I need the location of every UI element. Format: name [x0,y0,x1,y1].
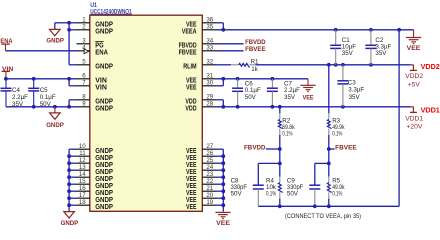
ground GNDP below C5 [50,107,61,120]
label R3 [332,118,345,138]
junction VEE rail [221,77,274,81]
resistor R2 [278,120,282,129]
label +20V [406,124,423,131]
ground GNDP top-left [50,29,61,35]
svg-text:21: 21 [206,185,213,192]
wire VEEA top rail [216,29,414,31]
junction VEEA rail [221,28,401,32]
pin 7 (VIN) [77,80,107,92]
svg-text:FBVDD: FBVDD [245,39,266,46]
svg-text:VIN: VIN [2,66,14,73]
svg-text:33: 33 [206,45,213,52]
svg-text:ENA: ENA [95,47,108,56]
svg-text:VDD1: VDD1 [421,106,440,115]
capacitor C6 [232,79,243,107]
pin 34 (FBVDD) [179,38,216,50]
wire VEE bus pins 27-19 [222,149,224,211]
ground VEE mid [300,79,315,92]
svg-text:VEE: VEE [216,220,231,227]
pin 22 (VEE) [186,178,216,190]
wire FBVDD label stub [266,148,280,150]
svg-text:ENA: ENA [0,38,13,45]
wire FBVEE label stub [329,148,335,150]
port VDD2 [410,65,417,71]
label C9 [287,178,304,198]
wires pins10-18 to bus [69,149,76,205]
pin 18 (GNDP) [77,199,114,211]
wire branch to C8 [258,163,280,185]
wire VDD rail pin28 to port [216,106,411,108]
pin 21 (VEE) [186,185,216,197]
label R1 [251,58,259,73]
svg-text:VDD2: VDD2 [405,73,423,80]
pin 25 (VEE) [186,157,216,169]
junction pins1-2 bus [67,21,71,32]
wire FBVEE node down [328,149,330,163]
svg-text:0.1%: 0.1% [266,191,277,198]
svg-text:29: 29 [206,94,213,101]
label C4 [12,87,28,108]
wire VIN rail to pin6 [6,78,77,80]
wire pin7 jog [69,79,76,86]
junction GNDP lower rail [32,105,71,109]
pin 20 (VEE) [186,192,216,204]
svg-text:FBVEE: FBVEE [179,47,197,56]
wire pin2 to bus [69,29,76,31]
svg-text:25: 25 [206,157,213,164]
svg-text:35V: 35V [349,94,361,101]
svg-text:0.1%: 0.1% [282,130,293,137]
label net FBVEE mid [335,144,357,151]
svg-text:18: 18 [79,199,86,206]
wire GNDP branch to symbol [55,23,69,30]
U1 reference designator [90,2,97,9]
wire pin34 FBVDD stub [216,43,244,45]
svg-text:VEEA: VEEA [182,26,197,35]
svg-text:VDD1: VDD1 [405,115,423,122]
pin 9 (GNDP) [77,101,114,113]
wire R2 top lead [279,107,281,114]
pin 33 (FBVEE) [179,45,216,57]
svg-text:GNDP: GNDP [46,38,64,45]
wire VDD2 rail R1 to port [256,64,411,66]
pin 1 (GNDP) [77,17,114,29]
junction bottom rail [278,204,331,208]
svg-text:FBVEE: FBVEE [335,144,357,151]
svg-text:35V: 35V [284,94,296,101]
label GNDP top-left [46,38,64,45]
svg-text:(CONNECT TO VEEA, pin 35): (CONNECT TO VEEA, pin 35) [285,213,361,220]
junction VIN rail [4,77,71,81]
svg-text:50V: 50V [231,191,243,198]
wire pin5 to bus [69,64,76,66]
svg-text:23: 23 [206,171,213,178]
pin 5 (GNDP) [77,59,114,71]
label GNDP below C5 [46,122,64,129]
svg-text:22: 22 [206,178,213,185]
pin 4 (ENA) [77,45,108,57]
svg-text:16: 16 [79,185,86,192]
ground VEE top-right [406,30,421,44]
capacitor C3 [337,65,348,107]
svg-text:27: 27 [206,143,213,150]
svg-text:50V: 50V [287,191,299,198]
svg-text:VDD2: VDD2 [421,62,440,71]
label net FBVDD mid [244,144,266,151]
label ENA [0,38,13,45]
wire GNDP lower rail to pin9 [6,106,77,108]
resistor R1 [239,63,250,67]
capacitor C7 [267,79,278,107]
junction VDD2 rail [327,63,373,67]
U1 part number UCC14240DWNQ1 [90,8,132,15]
svg-text:FBVDD: FBVDD [244,144,266,151]
label C7 [284,81,300,101]
svg-text:1k: 1k [251,66,258,73]
svg-text:26: 26 [206,150,213,157]
wire GNDP bus pins 10-18 [68,149,70,211]
pin 14 (GNDP) [77,171,114,183]
node FBVEE [327,147,331,151]
label R2 [282,118,295,138]
svg-text:19: 19 [206,199,213,206]
svg-text:GNDP: GNDP [95,103,113,112]
junction FBVEE branch [327,162,331,166]
pin 15 (GNDP) [77,178,114,190]
svg-text:VIN: VIN [95,82,107,91]
label VEE bottom [216,220,231,227]
svg-text:13: 13 [79,164,86,171]
svg-text:35V: 35V [375,50,387,57]
pin 23 (VEE) [186,171,216,183]
label VDD2 port [421,62,440,71]
svg-text:11: 11 [79,150,86,157]
svg-text:20: 20 [206,192,213,199]
wire pin29 jog [216,100,224,107]
pin 13 (GNDP) [77,164,114,176]
wire VEEA return bottom rail [258,205,399,207]
pin 27 (VEE) [186,143,216,155]
label C8 [231,178,248,198]
resistor R5 pins [328,163,330,206]
svg-text:VEE: VEE [303,94,315,101]
svg-text:+20V: +20V [406,124,423,131]
label +5V [408,81,421,88]
svg-text:24: 24 [206,164,213,171]
label C1 [342,37,356,57]
svg-text:14: 14 [79,171,86,178]
label C5 [40,87,56,108]
svg-text:GNDP: GNDP [95,61,113,70]
pin 28 (VDD) [185,101,215,113]
svg-text:30: 30 [206,80,213,87]
label C6 [245,81,261,101]
pin 17 (GNDP) [77,192,114,204]
pin 29 (VDD) [185,94,215,106]
label VDD1 sub [405,115,423,122]
label VDD2 sub [405,73,423,80]
svg-text:GNDP: GNDP [95,202,113,211]
resistor R4 [278,183,282,193]
pin 19 (VEE) [186,199,216,211]
svg-text:FBVEE: FBVEE [245,46,266,53]
svg-text:C3: C3 [348,79,356,86]
ground GNDP bottom-left [64,212,75,218]
label C3 [348,79,365,101]
op-amp-style IC body U1 (UCC14240DWNQ1) [90,15,203,211]
svg-text:50V: 50V [245,94,257,101]
pin 10 (GNDP) [77,143,114,155]
pin 35 (VEEA) [182,24,216,36]
resistor R4 pins [279,163,281,206]
pin 24 (VEE) [186,164,216,176]
label VEE mid [303,94,315,101]
note connect to VEEA [285,213,361,220]
label C2 [375,37,391,57]
capacitor C1 [330,30,341,65]
pin 12 (GNDP) [77,157,114,169]
label net FBVEE pin33 [245,46,266,53]
label VDD1 port [421,106,440,115]
svg-text:28: 28 [206,101,213,108]
svg-text:GNDP: GNDP [46,122,64,129]
svg-text:17: 17 [79,192,86,199]
label VIN [2,66,14,73]
junction FBVDD branch [278,162,282,166]
wire pin30 jog [216,79,224,86]
svg-text:+5V: +5V [408,81,421,88]
label VEE top-right [407,45,422,52]
svg-text:32: 32 [206,59,213,66]
wire pin8 jog [69,100,76,107]
pin 8 (GNDP) [77,94,114,106]
pin 31 (VEE) [186,73,216,85]
pin 2 (GNDP) [77,24,114,36]
svg-text:10: 10 [79,143,86,150]
wire pin33 FBVEE stub [216,50,244,52]
svg-text:GNDP: GNDP [95,26,113,35]
svg-text:12: 12 [79,157,86,164]
svg-text:VEE: VEE [186,82,197,91]
wires pins 27-19 to bus [216,149,224,205]
wire pin1 to bus [69,22,76,24]
svg-text:35V: 35V [342,50,354,57]
node FBVDD [278,147,282,151]
svg-text:VDD: VDD [185,103,196,112]
wire RLIM pin32 to R1 [216,64,232,66]
pin 32 (RLIM) [183,59,215,71]
svg-text:GNDP: GNDP [61,220,79,227]
port VDD1 [410,107,417,113]
wire R2 to FBVDD node [279,135,281,149]
wire R3 to FBVEE node [328,135,330,149]
wire R3 top from VDD2 rail [328,65,330,114]
pin 11 (GNDP) [77,150,114,162]
wire ENA to pin4 [6,50,77,52]
label GNDP bottom-left [61,220,79,227]
wire GNDP bus pins 1-2-5 vertical [68,23,70,65]
wire branch to C9 [315,163,329,185]
pin 36 (VEE) [186,17,216,29]
capacitor C8 [253,185,264,206]
resistor R3 pins [328,113,330,135]
resistor R3 [327,120,331,129]
svg-text:31: 31 [206,73,213,80]
input arrow pin4 ENA [84,49,89,54]
svg-text:3.3µF: 3.3µF [348,87,364,94]
resistor R5 [327,183,331,193]
pin 6 (VIN) [77,73,107,85]
svg-text:34: 34 [206,38,213,45]
svg-text:VEE: VEE [186,202,197,211]
capacitor C4 [1,79,12,107]
junctions pins 26-19 bus [221,154,225,207]
pin 26 (VEE) [186,150,216,162]
port ENA [1,44,10,51]
label R5 [332,178,345,198]
wire FBVDD node down [279,149,281,163]
pin 3 (PG) [77,38,105,50]
ground VEE bottom [215,212,230,218]
pin 30 (VEE) [186,80,216,92]
svg-text:RLIM: RLIM [183,61,196,70]
label net FBVDD pin34 [245,39,266,46]
capacitor C9 [309,185,320,206]
pin 16 (GNDP) [77,185,114,197]
resistor R1 leads [231,64,255,66]
junction VDD rail [221,105,344,109]
port VIN [2,71,11,78]
svg-text:VEE: VEE [407,45,422,52]
svg-text:35: 35 [206,24,213,31]
svg-text:36: 36 [206,17,213,24]
capacitor C5 [28,79,39,107]
svg-text:15: 15 [79,178,86,185]
junctions pins 11-18 bus [67,154,71,207]
wire pin36 jog [216,23,224,30]
svg-text:0.1%: 0.1% [332,130,343,137]
capacitor C2 [365,30,376,65]
resistor R2 pins [279,113,281,135]
wire VEE rail pin31 [216,78,309,80]
label R4 [266,178,277,198]
wire VEEA return riser [398,30,400,207]
svg-text:0.1%: 0.1% [332,191,343,198]
